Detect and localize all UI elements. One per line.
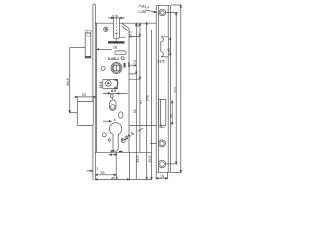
svg-text:28: 28 xyxy=(113,46,117,50)
svg-text:10.5: 10.5 xyxy=(128,31,132,38)
svg-text:22: 22 xyxy=(167,48,171,52)
svg-text:2-Ø8: 2-Ø8 xyxy=(138,10,146,14)
svg-text:87: 87 xyxy=(139,100,143,104)
svg-text:30: 30 xyxy=(169,114,173,118)
svg-text:35: 35 xyxy=(100,171,104,175)
svg-text:52: 52 xyxy=(133,109,137,113)
svg-text:240: 240 xyxy=(145,95,149,101)
svg-text:18: 18 xyxy=(160,174,164,178)
svg-text:88.5: 88.5 xyxy=(66,78,70,85)
svg-text:45.5: 45.5 xyxy=(111,176,118,180)
svg-text:8: 8 xyxy=(160,124,162,128)
svg-text:21.5: 21.5 xyxy=(157,59,164,63)
svg-text:45.5: 45.5 xyxy=(136,156,140,163)
svg-text:45.5: 45.5 xyxy=(148,156,152,163)
svg-text:13.5: 13.5 xyxy=(99,82,103,89)
svg-text:210: 210 xyxy=(173,87,177,93)
svg-text:42.5: 42.5 xyxy=(133,60,137,67)
svg-text:22.5: 22.5 xyxy=(85,30,92,34)
svg-text:8: 8 xyxy=(114,118,116,122)
svg-text:13: 13 xyxy=(135,24,139,28)
svg-text:8.5: 8.5 xyxy=(112,14,117,18)
svg-text:20: 20 xyxy=(82,93,86,97)
svg-text:3: 3 xyxy=(96,167,98,171)
svg-text:8-Ø8-2: 8-Ø8-2 xyxy=(108,57,119,61)
svg-text:8.5: 8.5 xyxy=(111,89,116,93)
